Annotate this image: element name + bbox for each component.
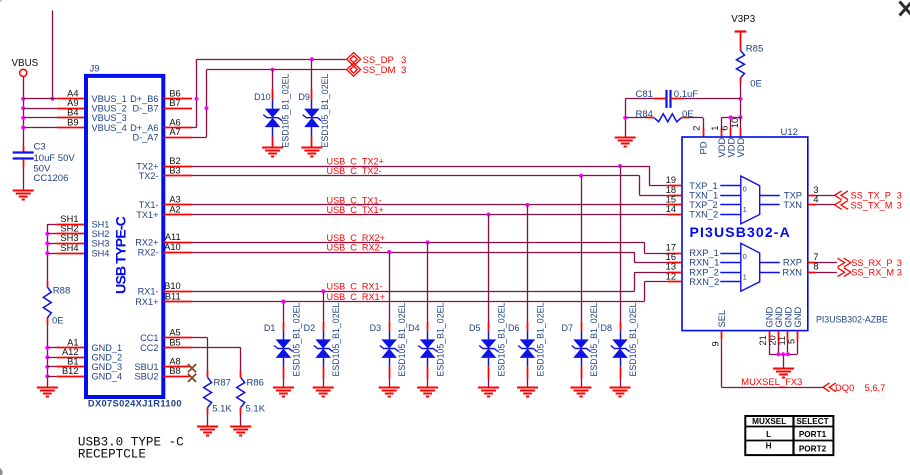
pin names U12 right [782, 190, 802, 277]
wire GND stubs [47, 348, 56, 377]
label C81 [636, 89, 653, 100]
power symbol VBUS circle [20, 69, 27, 76]
resistor R86 [237, 371, 245, 427]
net label SS_DP [363, 55, 407, 66]
wire SH3 stub [47, 243, 56, 245]
junction dot D4 [426, 240, 430, 244]
svg-text:D4: D4 [408, 323, 420, 333]
wire SH4 stub [47, 253, 56, 255]
label D8 [600, 323, 612, 333]
svg-text:DX07S024XJ1R1100: DX07S024XJ1R1100 [88, 398, 182, 408]
value D9 ESD105_B1_02EL [320, 74, 330, 148]
svg-text:SS_RX_P: SS_RX_P [851, 258, 892, 268]
svg-text:3: 3 [897, 258, 902, 268]
svg-text:USB_C_RX1+: USB_C_RX1+ [327, 292, 385, 302]
svg-text:ESD105_B1_02EL: ESD105_B1_02EL [497, 303, 507, 377]
svg-text:USB TYPE-C: USB TYPE-C [114, 216, 130, 294]
value R87 5.1K [212, 404, 232, 415]
ground D3 [379, 388, 400, 397]
table MUXSEL/SELECT [745, 416, 833, 455]
svg-text:CC1: CC1 [140, 333, 158, 343]
caption USB3.0 TYPE -C [78, 435, 184, 449]
resistor R87 [204, 371, 212, 427]
pin numbers J9 left [60, 89, 78, 377]
svg-text:SH3: SH3 [60, 233, 78, 243]
junction dots GND tie [777, 352, 790, 356]
svg-text:SH4: SH4 [92, 249, 110, 259]
svg-text:7: 7 [813, 252, 818, 262]
wire SEL MUXSEL [722, 331, 824, 388]
svg-text:GND_2: GND_2 [92, 353, 123, 363]
svg-text:ESD105_B1_02EL: ESD105_B1_02EL [291, 303, 301, 377]
wire USB_C_TX1- [192, 204, 668, 206]
svg-text:VDD: VDD [735, 137, 746, 157]
svg-text:B9: B9 [67, 117, 78, 127]
svg-text:TX2+: TX2+ [136, 161, 158, 171]
wire SS_DM [192, 70, 347, 138]
off-page connector DQ0 [823, 383, 836, 392]
junction dots GND column [45, 346, 49, 379]
svg-text:SH4: SH4 [60, 243, 78, 253]
capacitor C81 [625, 90, 740, 108]
svg-text:D-_B7: D-_B7 [132, 104, 158, 114]
value C3 10uF 50V [34, 153, 76, 164]
svg-text:ESD105_B1_02EL: ESD105_B1_02EL [397, 303, 407, 377]
pin number 1 rotated [710, 126, 720, 131]
svg-text:USB_C_TX1+: USB_C_TX1+ [327, 205, 384, 215]
svg-text:1: 1 [710, 126, 720, 131]
ground D6 [517, 388, 538, 397]
off-page connector SS_RX_M [838, 268, 851, 277]
svg-text:ESD105_B1_02EL: ESD105_B1_02EL [589, 303, 599, 377]
svg-text:H: H [766, 442, 772, 451]
pin stubs SBU1 SBU2 [163, 367, 189, 377]
net label MUXSEL_FX3 [741, 376, 802, 387]
diode D10 [263, 70, 282, 148]
net label SS_TX_M [851, 200, 902, 210]
pin numbers J9 right [164, 89, 181, 377]
wire VBUS_4 B9 [23, 127, 86, 129]
junction dot D8 [618, 164, 622, 168]
svg-text:RXN: RXN [782, 267, 802, 277]
label D9 [298, 92, 310, 102]
wire CC1 to R87 [192, 338, 208, 371]
wire USB_C_RX1- [192, 291, 635, 293]
net label USB_C_TX1- [327, 195, 382, 205]
net label USB_C_TX1+ [327, 205, 384, 215]
svg-text:RXN_2: RXN_2 [689, 277, 719, 287]
svg-text:USB_C_RX2+: USB_C_RX2+ [327, 233, 385, 243]
off-page connector SS_DM [347, 63, 361, 76]
svg-text:GND_3: GND_3 [92, 362, 123, 372]
svg-text:CC2: CC2 [140, 343, 158, 353]
svg-text:VBUS_2: VBUS_2 [92, 104, 127, 114]
pin names VDD rotated [716, 137, 746, 157]
svg-text:R86: R86 [247, 377, 264, 388]
svg-text:SBU2: SBU2 [134, 372, 158, 382]
diode D7 [572, 176, 591, 388]
svg-text:14: 14 [666, 204, 676, 214]
svg-text:A8: A8 [169, 357, 180, 367]
svg-text:0: 0 [743, 252, 747, 261]
svg-text:SS_RX_M: SS_RX_M [851, 268, 894, 278]
label D7 [561, 323, 573, 333]
wire VBUS_2 A9 [23, 108, 86, 110]
svg-text:5.1K: 5.1K [246, 404, 266, 415]
value D1 ESD105_B1_02EL [291, 303, 301, 377]
junction dot R84 left [623, 116, 627, 120]
svg-text:13: 13 [666, 262, 676, 272]
svg-text:RX2+: RX2+ [135, 238, 158, 248]
svg-text:TXP: TXP [784, 190, 802, 200]
svg-text:D+_B6: D+_B6 [130, 94, 158, 104]
svg-text:USB_C_TX1-: USB_C_TX1- [327, 195, 382, 205]
svg-text:TXN_1: TXN_1 [689, 190, 718, 200]
svg-text:A2: A2 [169, 204, 180, 214]
svg-text:V3P3: V3P3 [731, 14, 756, 25]
svg-text:0E: 0E [750, 79, 762, 90]
svg-text:10uF 50V: 10uF 50V [34, 153, 76, 164]
junction dot D2 [321, 289, 325, 293]
svg-text:USB_C_RX1-: USB_C_RX1- [327, 282, 383, 292]
label U12 [781, 127, 798, 138]
svg-text:A4: A4 [67, 89, 78, 99]
close button X top-right [900, 1, 910, 16]
svg-text:SELECT: SELECT [796, 417, 828, 426]
svg-text:D9: D9 [298, 92, 310, 102]
wire VBUS_1 A4 [23, 98, 86, 100]
wire RX1- to RXP_2 [635, 272, 668, 291]
no-connect X SBU2 [188, 374, 196, 382]
junction dot D9 [310, 57, 314, 61]
svg-text:L: L [766, 430, 771, 439]
svg-text:9: 9 [711, 341, 721, 346]
svg-text:R85: R85 [746, 44, 763, 55]
value R84 0E [682, 109, 694, 120]
screen artifact bottom-left [0, 468, 3, 475]
svg-text:B2: B2 [169, 156, 180, 166]
svg-text:3: 3 [401, 55, 406, 66]
svg-text:SEL: SEL [716, 310, 727, 328]
net label SS_DM [363, 65, 407, 76]
wire VBUS_3 B4 [23, 117, 86, 119]
pin stubs GND_1-GND_4 [56, 348, 86, 377]
label R84 [636, 109, 653, 120]
wire USB_C_TX1+ [192, 214, 668, 216]
label C3 [34, 142, 46, 153]
junction dot VDD pin6 [729, 115, 733, 119]
svg-text:A12: A12 [62, 347, 79, 357]
ground R88 [37, 388, 58, 397]
net label SS_RX_P [851, 258, 902, 268]
ground D9 [301, 148, 322, 157]
wire TX2+ to TXP_1 [649, 166, 667, 186]
wire VDD tie [722, 117, 741, 137]
svg-text:A5: A5 [169, 328, 180, 338]
net label USB_C_RX2- [327, 242, 383, 252]
svg-text:GND_4: GND_4 [92, 372, 123, 382]
label J9 [90, 64, 100, 75]
svg-text:USB_C_RX2-: USB_C_RX2- [327, 242, 383, 252]
label D6 [508, 323, 520, 333]
svg-text:B11: B11 [165, 291, 181, 301]
junction dot D1 [281, 300, 285, 304]
svg-text:18: 18 [666, 185, 676, 195]
junction dot D10 [271, 68, 275, 72]
wire RX2+ to RXP_1 [644, 242, 667, 253]
off-page connector SS_RX_P [838, 258, 851, 267]
svg-text:D3: D3 [370, 323, 382, 333]
svg-text:D6: D6 [508, 323, 520, 333]
diode D2 [314, 291, 333, 387]
ground R86 [230, 427, 251, 436]
svg-text:TX2-: TX2- [139, 171, 159, 181]
svg-text:0.1uF: 0.1uF [674, 89, 698, 100]
svg-text:B1: B1 [67, 357, 78, 367]
value D2 ESD105_B1_02EL [331, 303, 341, 377]
svg-text:ESD105_B1_02EL: ESD105_B1_02EL [320, 74, 330, 148]
svg-text:SH2: SH2 [60, 224, 78, 234]
svg-text:ESD105_B1_02EL: ESD105_B1_02EL [436, 303, 446, 377]
svg-text:19: 19 [666, 175, 676, 185]
svg-text:VBUS: VBUS [12, 58, 39, 69]
svg-text:J9: J9 [90, 64, 100, 75]
svg-text:GND_1: GND_1 [92, 343, 123, 353]
label DX07S024XJ1R1100 [88, 398, 182, 408]
svg-text:U12: U12 [781, 127, 798, 138]
label D1 [264, 323, 276, 333]
off-page connector SS_TX_P [835, 191, 848, 200]
svg-text:SH2: SH2 [92, 229, 110, 239]
pin stubs SH1-SH4 [56, 225, 86, 254]
svg-text:3: 3 [897, 200, 902, 210]
value D4 ESD105_B1_02EL [436, 303, 446, 377]
pin name PD rotated [697, 141, 708, 154]
svg-text:CC1206: CC1206 [34, 173, 69, 184]
diode D3 [380, 252, 399, 388]
wire SH2 stub [47, 233, 56, 235]
pin names GND rotated [764, 306, 803, 327]
junction dot D7 [579, 174, 583, 178]
net label USB_C_RX1+ [327, 292, 385, 302]
wire C81 left vertical [625, 99, 627, 137]
ground D2 [313, 388, 334, 397]
net label USB_C_TX2- [327, 166, 382, 176]
svg-text:5,6,7: 5,6,7 [865, 382, 886, 393]
net label SS_TX_P [851, 191, 902, 201]
svg-text:D+_A6: D+_A6 [130, 123, 158, 133]
wire VBUS from top edge [52, 11, 54, 99]
wire USB_C_RX2+ [192, 242, 644, 244]
label USB TYPE-C rotated [114, 216, 130, 294]
svg-text:TXP_2: TXP_2 [689, 200, 717, 210]
svg-text:RX1-: RX1- [138, 287, 159, 297]
svg-text:SH1: SH1 [60, 214, 78, 224]
svg-text:R88: R88 [53, 285, 70, 296]
label R85 [746, 44, 763, 55]
pin stubs U12 left [668, 186, 682, 282]
no-connect X SBU1 [188, 364, 196, 372]
wire GND column [47, 348, 49, 388]
diode D4 [418, 242, 437, 387]
svg-text:B8: B8 [169, 366, 180, 376]
off-page connector SS_TX_M [835, 201, 848, 210]
svg-text:VBUS_4: VBUS_4 [92, 123, 127, 133]
svg-text:17: 17 [666, 243, 676, 253]
value C3 CC1206 [34, 173, 69, 184]
svg-text:VBUS_3: VBUS_3 [92, 113, 127, 123]
value D3 ESD105_B1_02EL [397, 303, 407, 377]
svg-text:PORT1: PORT1 [799, 430, 827, 439]
svg-text:USB_C_TX2-: USB_C_TX2- [327, 166, 382, 176]
svg-text:RX1+: RX1+ [135, 297, 158, 307]
svg-text:A9: A9 [67, 98, 78, 108]
screen artifact top-left [0, 0, 2, 2]
wire VBUS vertical [23, 76, 25, 146]
svg-text:TXP_1: TXP_1 [689, 181, 717, 191]
diode D8 [611, 166, 630, 388]
svg-text:PORT2: PORT2 [799, 445, 827, 454]
svg-text:RX2-: RX2- [138, 247, 159, 257]
svg-text:R84: R84 [636, 109, 653, 120]
pin number 6 rotated [720, 126, 730, 131]
pin number 9 rotated [711, 341, 721, 346]
svg-text:DQ0: DQ0 [835, 382, 854, 393]
svg-text:A3: A3 [169, 195, 180, 205]
svg-text:D2: D2 [304, 323, 316, 333]
wire RXP out [816, 262, 837, 264]
wire RXN out [816, 272, 837, 274]
label R87 [214, 377, 231, 388]
svg-text:B4: B4 [67, 108, 78, 118]
ground D8 [610, 388, 631, 397]
diode D9 [303, 59, 322, 147]
wire SH column [47, 224, 56, 281]
junction dots R85 column [739, 97, 743, 120]
pin stubs J9 right [163, 99, 192, 348]
wire GND pins tie [769, 331, 797, 355]
svg-text:C81: C81 [636, 89, 653, 100]
svg-text:R87: R87 [214, 377, 231, 388]
svg-text:2: 2 [692, 126, 702, 131]
diode D5 [479, 215, 498, 388]
svg-text:TX1+: TX1+ [136, 210, 158, 220]
net label DQ0 [835, 382, 885, 393]
wire USB_C_TX2+ [192, 166, 649, 168]
mux TX symbol [720, 176, 780, 224]
ground D1 [273, 388, 294, 397]
svg-text:10: 10 [730, 118, 740, 128]
svg-text:ESD105_B1_02EL: ESD105_B1_02EL [628, 303, 638, 377]
svg-text:MUXSEL_FX3: MUXSEL_FX3 [741, 376, 802, 387]
svg-text:USB_C_TX2+: USB_C_TX2+ [327, 156, 384, 166]
pin numbers 21 20 11 5 rotated [758, 335, 796, 345]
junction dot D5 [487, 213, 491, 217]
svg-text:15: 15 [666, 194, 676, 204]
label D3 [370, 323, 382, 333]
pin names J9 right [130, 94, 158, 382]
resistor R84 [625, 114, 703, 122]
svg-text:MUXSEL: MUXSEL [752, 417, 786, 426]
svg-text:SH1: SH1 [92, 219, 110, 229]
pin stubs U12 right [808, 196, 816, 273]
svg-text:ESD105_B1_02EL: ESD105_B1_02EL [331, 303, 341, 377]
resistor R85 [737, 51, 745, 99]
wire RX1+ to RXN_2 [644, 282, 667, 302]
wire R84 to PD pin 2 [703, 118, 705, 137]
wire USB_C_RX1+ [192, 301, 644, 303]
net label USB_C_RX1- [327, 282, 383, 292]
wire TXN out [816, 204, 835, 206]
svg-text:B7: B7 [169, 98, 180, 108]
svg-text:A7: A7 [169, 127, 180, 137]
ground D5 [478, 388, 499, 397]
wire USB_C_TX2- [192, 175, 640, 177]
ground D10 [262, 148, 283, 157]
junction dots VBUS column [21, 97, 54, 130]
value R85 0E [750, 79, 762, 90]
value D5 ESD105_B1_02EL [497, 303, 507, 377]
diode D1 [274, 302, 293, 388]
svg-text:PD: PD [697, 141, 708, 154]
wire TXP out [816, 195, 835, 197]
svg-text:B10: B10 [164, 281, 181, 291]
junction dot D6 [526, 203, 530, 207]
value C3 50V [34, 164, 52, 175]
ground U12 [773, 369, 794, 378]
ground D7 [571, 388, 592, 397]
svg-text:TX1-: TX1- [139, 200, 159, 210]
value D10 ESD105_B1_02EL [281, 74, 291, 148]
svg-text:12: 12 [666, 271, 676, 281]
svg-text:D5: D5 [469, 323, 481, 333]
value R86 5.1K [246, 404, 266, 415]
connector J9 box [86, 76, 163, 397]
svg-text:8: 8 [813, 262, 818, 272]
wire R85 to VDD [740, 99, 742, 118]
svg-text:B6: B6 [169, 89, 180, 99]
wire GND stem [783, 354, 785, 368]
svg-text:PI3USB302-A: PI3USB302-A [690, 224, 791, 240]
node VBUS label [12, 58, 39, 69]
wire SS_DP [192, 59, 347, 127]
svg-text:C3: C3 [34, 142, 46, 153]
pin names J9 left [92, 94, 127, 382]
mux RX symbol [720, 243, 780, 291]
pin number 10 rotated [730, 118, 740, 128]
value D7 ESD105_B1_02EL [589, 303, 599, 377]
svg-text:TXN_2: TXN_2 [689, 210, 718, 220]
svg-text:3: 3 [897, 268, 902, 278]
pin names U12 left [689, 181, 719, 287]
svg-text:VBUS_1: VBUS_1 [92, 94, 127, 104]
svg-text:B12: B12 [62, 366, 79, 376]
svg-text:D-_A7: D-_A7 [132, 132, 158, 142]
wire USB_C_RX2- [192, 252, 635, 254]
svg-text:3: 3 [897, 191, 902, 201]
svg-text:SS_TX_M: SS_TX_M [851, 200, 893, 210]
junction dot SS_DM B7 [205, 106, 209, 110]
svg-text:SBU1: SBU1 [134, 362, 158, 372]
diode D6 [518, 205, 537, 388]
value R88 0E [52, 316, 64, 327]
svg-text:RXP_2: RXP_2 [689, 267, 718, 277]
value C81 0.1uF [674, 89, 698, 100]
junction dots SH column [45, 232, 49, 256]
label PI3USB302-A [690, 224, 791, 240]
svg-text:GND: GND [792, 306, 803, 327]
svg-text:RXP: RXP [783, 258, 802, 268]
